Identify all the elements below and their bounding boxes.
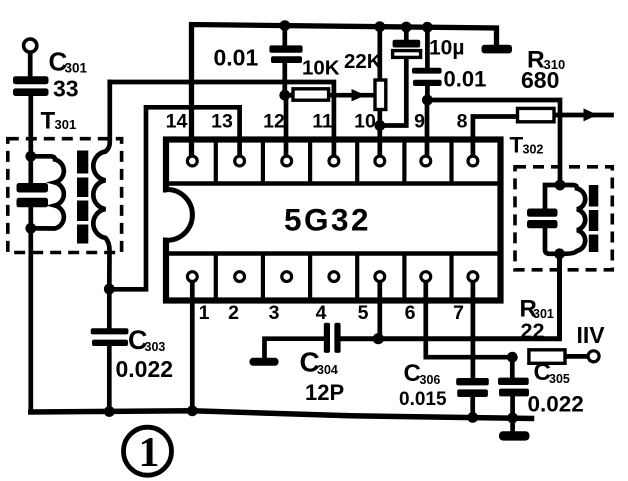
svg-text:13: 13 <box>211 111 233 133</box>
svg-text:6: 6 <box>405 302 416 324</box>
svg-text:0.01: 0.01 <box>444 67 487 92</box>
svg-text:22: 22 <box>521 319 545 343</box>
svg-text:0.022: 0.022 <box>116 356 174 382</box>
svg-text:5G32: 5G32 <box>284 202 371 238</box>
svg-text:T: T <box>41 108 56 135</box>
svg-text:302: 302 <box>523 143 544 157</box>
svg-text:10: 10 <box>354 111 376 133</box>
svg-text:301: 301 <box>55 117 77 132</box>
svg-text:305: 305 <box>549 372 570 386</box>
svg-text:4: 4 <box>316 302 327 324</box>
svg-text:5: 5 <box>358 302 369 324</box>
svg-text:301: 301 <box>65 61 88 76</box>
svg-text:303: 303 <box>145 340 166 354</box>
svg-text:11: 11 <box>312 111 333 133</box>
svg-text:14: 14 <box>166 111 188 133</box>
svg-text:C: C <box>404 360 421 387</box>
svg-text:0.01: 0.01 <box>214 45 259 71</box>
svg-text:12: 12 <box>263 111 285 133</box>
svg-text:1: 1 <box>139 430 160 476</box>
svg-text:304: 304 <box>317 363 338 377</box>
svg-text:10µ: 10µ <box>429 37 464 60</box>
svg-text:T: T <box>510 133 524 158</box>
svg-text:12P: 12P <box>305 380 344 405</box>
svg-text:10K: 10K <box>302 57 340 80</box>
svg-text:1: 1 <box>199 302 210 324</box>
svg-text:306: 306 <box>420 373 441 387</box>
svg-text:680: 680 <box>521 67 559 93</box>
svg-text:22K: 22K <box>344 50 382 73</box>
svg-text:7: 7 <box>453 302 464 324</box>
svg-text:0.022: 0.022 <box>528 392 584 417</box>
svg-text:IIV: IIV <box>577 322 606 348</box>
svg-text:33: 33 <box>53 76 79 102</box>
svg-text:0.015: 0.015 <box>399 389 447 410</box>
svg-text:9: 9 <box>414 111 425 133</box>
svg-text:3: 3 <box>269 302 280 324</box>
svg-text:2: 2 <box>228 302 239 324</box>
svg-text:8: 8 <box>457 111 468 133</box>
